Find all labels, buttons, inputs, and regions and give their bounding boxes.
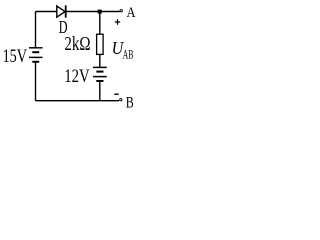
wire 15V battery to bottom-left corner: [35, 63, 37, 101]
node junction dot: [98, 10, 102, 14]
wire left vertical (top-left corner down to 15V battery): [35, 12, 37, 48]
wire top-left horizontal (node from 15V+ to diode anode): [36, 11, 57, 13]
wire diode cathode to terminal A: [66, 11, 120, 13]
wire bottom horizontal to terminal B: [36, 100, 120, 102]
wire resistor to 12V battery: [99, 54, 101, 67]
battery 12V: [93, 67, 107, 81]
svg-text:AB: AB: [123, 47, 134, 62]
svg-text:15V: 15V: [3, 47, 28, 67]
resistor 2k ohm (box): [97, 34, 104, 54]
svg-text:A: A: [127, 4, 136, 21]
svg-text:B: B: [126, 95, 134, 112]
wire 12V battery to bottom wire: [99, 82, 101, 101]
wire junction down to resistor: [99, 12, 101, 35]
svg-text:12V: 12V: [64, 66, 90, 87]
diode D: [57, 5, 66, 17]
terminal A (open circle): [120, 10, 122, 12]
svg-text:2kΩ: 2kΩ: [64, 34, 90, 55]
minus sign near B: [114, 93, 118, 95]
battery 15V: [29, 48, 43, 62]
plus sign near A: [115, 19, 120, 24]
terminal B (open circle): [120, 99, 122, 101]
